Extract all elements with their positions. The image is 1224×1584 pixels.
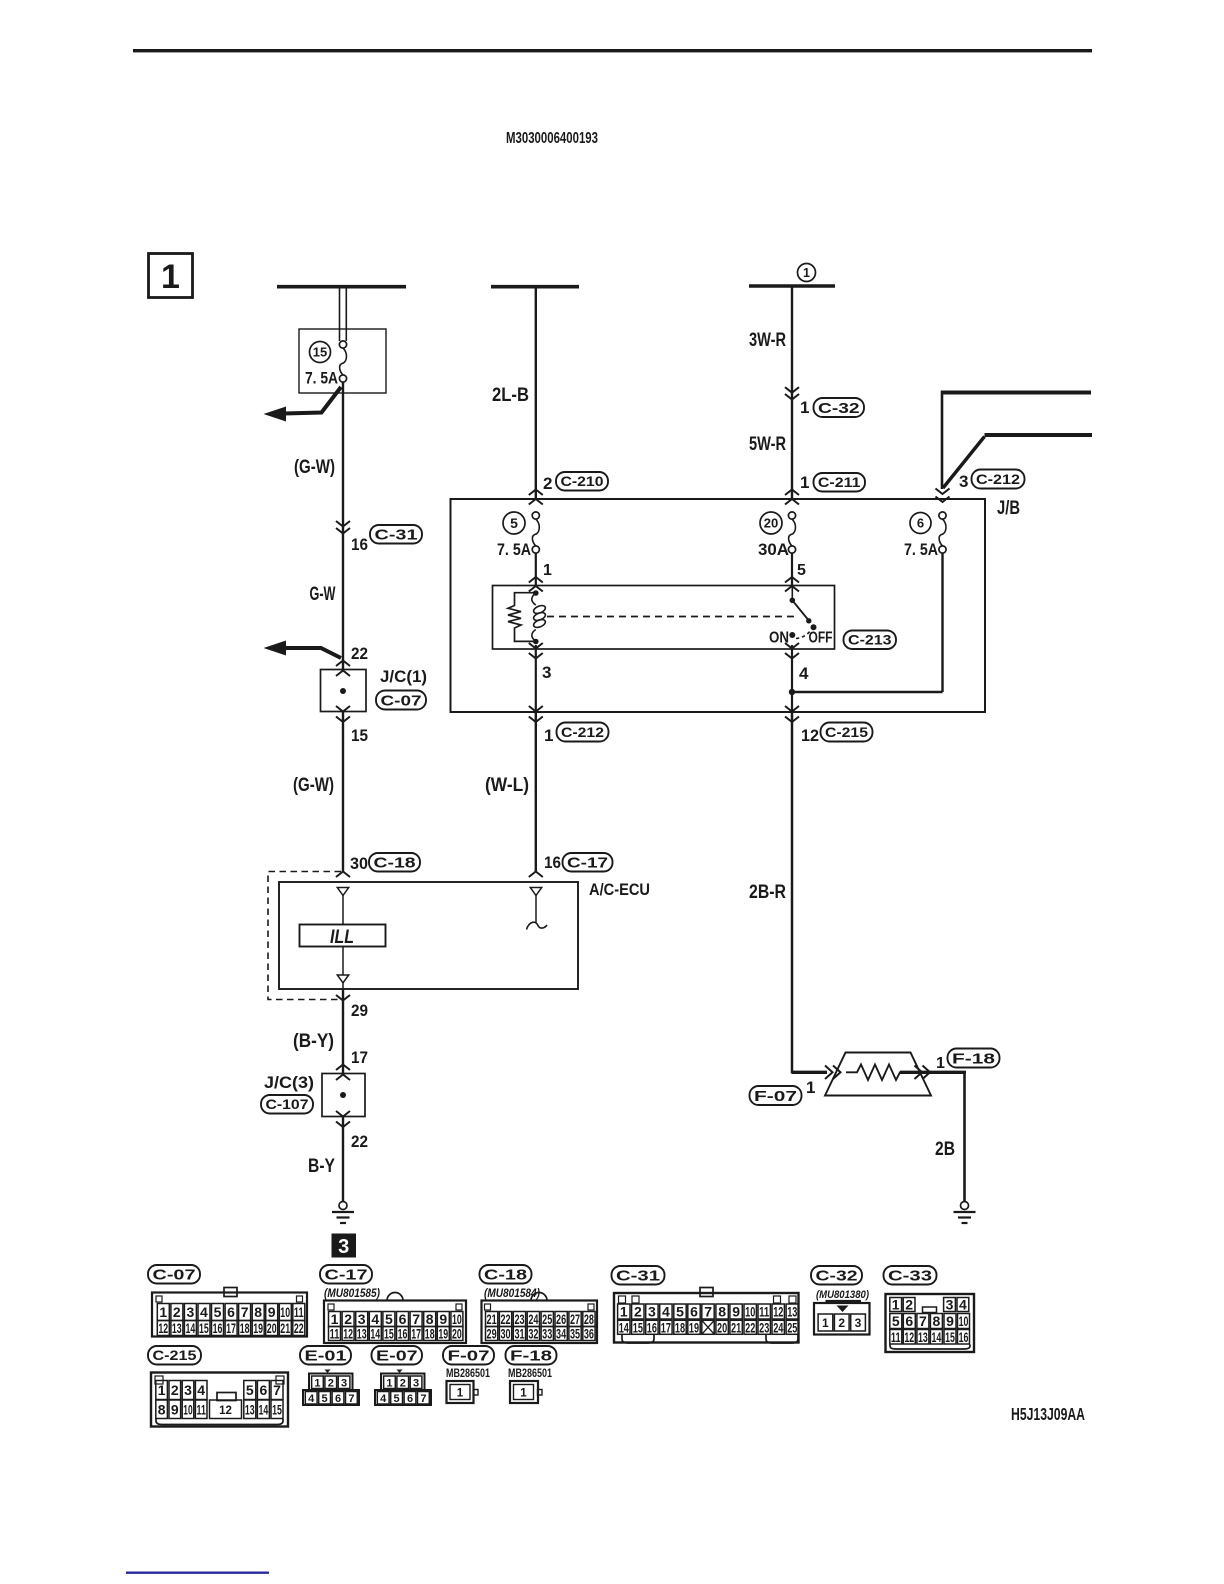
svg-text:22: 22 [745,1320,755,1336]
svg-text:1: 1 [620,1304,628,1320]
svg-text:19: 19 [438,1326,448,1342]
connector marks J/C(3) bottom [336,1111,350,1117]
svg-text:13: 13 [357,1326,367,1342]
svg-text:16: 16 [351,535,368,554]
svg-text:20: 20 [452,1326,462,1342]
svg-text:10: 10 [959,1313,969,1329]
C-32 pinout [814,1303,870,1335]
svg-text:17: 17 [661,1320,671,1336]
svg-text:(G-W): (G-W) [294,457,335,478]
fuse 15 element [339,341,346,348]
connector label C-07 [376,691,426,710]
svg-text:E-07: E-07 [376,1348,418,1365]
svg-text:C-33: C-33 [888,1268,932,1285]
svg-text:3: 3 [855,1316,862,1330]
svg-text:13: 13 [245,1401,255,1417]
svg-text:1: 1 [892,1297,900,1313]
svg-text:9: 9 [732,1304,740,1320]
svg-text:17: 17 [226,1320,236,1336]
connector label C-211 [814,473,866,492]
junction connector J/C(1) C-07 [321,670,367,712]
svg-text:7. 5A: 7. 5A [305,370,338,388]
svg-text:36: 36 [584,1326,594,1342]
legend connector F-18 [506,1346,557,1365]
wire 2L-B [535,288,537,499]
pin triangle (pin 16 inside) [530,888,541,896]
svg-text:10: 10 [745,1304,755,1320]
connector marks J/C(1) bottom [336,706,350,712]
svg-text:4: 4 [308,1393,315,1405]
svg-text:6: 6 [260,1382,268,1398]
svg-text:17: 17 [351,1048,368,1067]
svg-text:6: 6 [407,1393,413,1405]
svg-text:12: 12 [158,1320,168,1336]
svg-text:J/C(3): J/C(3) [264,1074,314,1092]
svg-text:2: 2 [905,1297,913,1313]
svg-text:20: 20 [267,1320,277,1336]
internal open end hook [527,922,548,929]
connector label C-31 [370,525,422,544]
svg-text:4: 4 [959,1297,967,1313]
connector mark A/C-ECU entry right [529,872,543,878]
svg-text:14: 14 [619,1320,629,1336]
top page rule [133,49,1092,52]
svg-text:23: 23 [759,1320,769,1336]
svg-text:3: 3 [648,1304,656,1320]
svg-text:7: 7 [241,1304,249,1320]
svg-text:3: 3 [187,1304,195,1320]
condenser fan relay box [493,586,835,650]
C-215 pinout [151,1373,288,1427]
wire pin4 down [791,645,793,712]
svg-text:1: 1 [158,1382,166,1398]
svg-text:C-31: C-31 [616,1268,660,1285]
legend connector F-07 [443,1346,494,1365]
svg-text:C-32: C-32 [818,400,860,417]
svg-text:1: 1 [161,258,180,296]
svg-text:1: 1 [543,562,552,579]
svg-text:15: 15 [945,1329,955,1345]
relay coil junction dots [533,590,539,596]
svg-text:5: 5 [676,1304,684,1320]
svg-text:2: 2 [838,1316,845,1330]
svg-text:C-210: C-210 [561,474,604,489]
svg-text:15: 15 [633,1320,643,1336]
branch arrow to other circuit (top) [284,387,341,414]
svg-text:(B-Y): (B-Y) [293,1031,334,1052]
svg-text:16: 16 [647,1320,657,1336]
connector label C-215 (wire) [821,723,873,742]
svg-text:9: 9 [946,1313,954,1329]
svg-text:3: 3 [413,1377,419,1389]
svg-text:9: 9 [268,1304,276,1320]
svg-text:2: 2 [171,1382,179,1398]
legend connector E-01 [300,1346,351,1365]
internal wire to ILL [342,896,344,926]
svg-text:1: 1 [520,1388,527,1400]
wire 2B-R [791,712,794,1074]
C-33 pinout [886,1294,975,1352]
svg-text:13: 13 [172,1320,182,1336]
relay pin 3 exit [529,643,543,649]
svg-text:13: 13 [787,1304,797,1320]
svg-text:C-215: C-215 [825,725,869,740]
svg-text:30: 30 [500,1326,510,1342]
svg-text:4: 4 [662,1304,670,1320]
resistor (condenser fan) trapezoid [825,1053,931,1096]
svg-text:3: 3 [959,472,968,491]
frame label 1 [149,254,193,298]
svg-text:15: 15 [199,1320,209,1336]
connector label C-212 (top) [972,470,1025,489]
svg-text:34: 34 [556,1326,566,1342]
svg-text:2: 2 [634,1304,642,1320]
svg-text:2: 2 [400,1377,406,1389]
svg-text:3: 3 [946,1297,954,1313]
svg-text:7: 7 [273,1382,281,1398]
power bus bar (right) [749,284,835,288]
svg-text:33: 33 [542,1326,552,1342]
svg-text:1: 1 [806,1078,815,1097]
svg-text:M3030006400193: M3030006400193 [506,130,598,147]
svg-text:3: 3 [542,663,551,682]
svg-text:1: 1 [457,1388,464,1400]
fuse 15 number [310,342,331,363]
svg-text:J/B: J/B [997,498,1020,519]
svg-text:11: 11 [891,1329,901,1345]
svg-text:2B-R: 2B-R [749,882,786,903]
svg-text:F-07: F-07 [448,1348,490,1365]
connector label C-17 (wire) [563,853,613,872]
svg-text:(W-L): (W-L) [485,775,529,796]
wire 3W-R [791,287,793,499]
svg-text:12: 12 [801,726,819,745]
feed wire (thick) top right 1 [942,391,1091,395]
svg-text:C-212: C-212 [561,725,604,740]
svg-text:3W-R: 3W-R [749,330,786,351]
wire (B-Y) [342,989,344,1074]
svg-text:3: 3 [184,1382,192,1398]
svg-text:6: 6 [335,1393,341,1405]
svg-text:14: 14 [186,1320,196,1336]
svg-text:8: 8 [254,1304,262,1320]
svg-text:10: 10 [183,1401,193,1417]
connector label C-32 (wire) [814,398,865,417]
svg-text:7: 7 [420,1393,426,1405]
svg-text:19: 19 [689,1320,699,1336]
connector marks C-32 [785,387,799,393]
svg-text:16: 16 [398,1326,408,1342]
feed wire (thick) top right 2 [985,433,1093,437]
svg-text:21: 21 [731,1320,741,1336]
relay internal resistor [508,593,536,642]
svg-text:C-32: C-32 [816,1268,858,1285]
fuse 20 [760,512,782,534]
connector mark A/C-ECU entry [336,872,350,878]
connector marks resistor right [915,1066,923,1080]
source number 1 [798,264,816,282]
svg-text:8: 8 [933,1313,941,1329]
svg-text:16: 16 [213,1320,223,1336]
svg-text:22: 22 [351,644,368,663]
svg-text:(MU801380): (MU801380) [816,1289,869,1301]
svg-text:1: 1 [386,1377,392,1389]
connector marks C-31 [336,521,350,527]
fuse 15 box [299,329,386,393]
svg-text:C-215: C-215 [153,1348,198,1363]
svg-text:18: 18 [675,1320,685,1336]
svg-text:7: 7 [919,1313,927,1329]
C-31 pinout [614,1293,799,1343]
svg-text:(G-W): (G-W) [293,775,334,796]
connector label F-18 (wire) [948,1049,1000,1068]
ground (body earth) right [961,1202,969,1210]
svg-text:11: 11 [759,1304,769,1320]
svg-text:5: 5 [892,1313,900,1329]
svg-text:13: 13 [918,1329,928,1345]
relay coil [532,593,536,605]
svg-text:29: 29 [351,1001,368,1020]
footer link rule [126,1572,269,1574]
junction block J/B [451,499,986,712]
svg-text:18: 18 [240,1320,250,1336]
svg-text:J/C(1): J/C(1) [380,668,427,686]
svg-text:5W-R: 5W-R [749,434,786,455]
wire elbow to resistor [792,1071,827,1074]
svg-text:C-211: C-211 [818,475,861,490]
svg-text:F-18: F-18 [952,1050,995,1067]
connector marks relay entry left [529,577,543,583]
svg-text:14: 14 [259,1401,269,1417]
svg-text:C-07: C-07 [153,1267,196,1284]
relay pin 4 exit [785,643,799,649]
legend connector E-07 [372,1346,423,1365]
svg-text:1: 1 [800,473,809,492]
power bus bar (middle) [491,285,579,289]
wire B-Y to ground [342,1117,344,1202]
svg-text:6: 6 [905,1313,913,1329]
svg-text:10: 10 [280,1304,290,1320]
svg-text:6: 6 [227,1304,235,1320]
svg-text:17: 17 [411,1326,421,1342]
svg-text:1: 1 [822,1316,829,1330]
svg-text:15: 15 [313,345,327,360]
svg-text:MB286501: MB286501 [508,1366,552,1380]
svg-text:8: 8 [158,1401,166,1417]
ground point marker 3 [332,1234,357,1259]
C-18 pinout [482,1301,598,1344]
legend connector C-07 [148,1265,200,1284]
C-07 pinout [152,1293,307,1337]
svg-text:5: 5 [246,1382,254,1398]
connector label C-107 [261,1095,313,1114]
svg-text:F-07: F-07 [754,1088,797,1105]
branch arrow to other circuit (at junction 22) [285,648,341,658]
svg-text:F-18: F-18 [510,1348,552,1365]
svg-text:C-07: C-07 [381,692,422,709]
legend connector C-32 [811,1266,862,1285]
svg-text:C-18: C-18 [484,1267,527,1284]
svg-text:6: 6 [917,516,924,531]
svg-text:MB286501: MB286501 [446,1366,490,1380]
svg-text:2L-B: 2L-B [492,385,529,406]
svg-text:7. 5A: 7. 5A [904,541,938,559]
svg-text:21: 21 [280,1320,290,1336]
connector marks J/B entry (C-210) [529,490,543,496]
wire G-W vertical [342,382,344,670]
svg-text:2: 2 [328,1377,334,1389]
svg-text:1: 1 [803,266,810,280]
svg-text:A/C-ECU: A/C-ECU [589,881,650,899]
svg-text:7: 7 [704,1304,712,1320]
connector marks relay entry right [785,577,799,583]
svg-text:14: 14 [370,1326,380,1342]
connector marks resistor left [825,1066,833,1080]
F-18 pinout [510,1381,538,1403]
svg-text:C-212: C-212 [976,472,1020,487]
connector label C-213 [844,631,897,650]
connector mark A/C-ECU exit [336,995,350,1001]
F-07 pinout [447,1381,474,1403]
svg-text:5: 5 [214,1304,222,1320]
wire (W-L) [535,712,537,872]
dashed option box [268,872,341,1000]
connector label C-210 [556,472,608,491]
C-17 pinout [324,1301,466,1344]
svg-text:OFF: OFF [809,630,833,647]
svg-text:4: 4 [200,1304,208,1320]
svg-text:30: 30 [350,854,368,873]
relay coil-to-switch dashed link [547,616,799,618]
svg-text:4: 4 [799,664,809,683]
wire resistor to ground [900,1071,966,1074]
svg-text:11: 11 [197,1401,207,1417]
svg-text:31: 31 [514,1326,524,1342]
svg-text:H5J13J09AA: H5J13J09AA [1011,1404,1085,1424]
E-07 pinout [397,1370,403,1374]
svg-text:12: 12 [343,1326,353,1342]
svg-text:16: 16 [959,1329,969,1345]
svg-text:1: 1 [314,1377,320,1389]
connector marks J/B exit right (C-215 pin12) [785,706,799,712]
connector label F-07 (wire) [750,1086,802,1105]
ground (body earth) left [339,1202,347,1210]
A/C-ECU box [279,882,578,989]
svg-text:11: 11 [330,1326,340,1342]
svg-text:B-Y: B-Y [308,1156,335,1177]
connector label C-212 (bottom) [557,723,609,742]
svg-text:20: 20 [717,1320,727,1336]
svg-text:1: 1 [936,1055,945,1072]
svg-text:15: 15 [272,1401,282,1417]
svg-text:16: 16 [544,853,561,872]
svg-text:2: 2 [173,1304,181,1320]
wire (G-W) lower [342,712,344,872]
svg-text:C-31: C-31 [375,527,418,544]
svg-text:12: 12 [219,1405,232,1417]
connector marks J/C(3) top [336,1065,350,1071]
svg-text:25: 25 [787,1320,797,1336]
svg-text:22: 22 [294,1320,304,1336]
svg-text:7. 5A: 7. 5A [497,541,531,559]
junction connector J/C(3) C-107 [322,1074,365,1117]
svg-text:4: 4 [380,1393,387,1405]
pin triangle (pin 29 inside) [337,975,348,983]
legend connector C-215 [148,1346,201,1365]
relay switch [790,598,796,604]
svg-text:7: 7 [348,1393,354,1405]
svg-text:29: 29 [487,1326,497,1342]
svg-text:35: 35 [570,1326,580,1342]
svg-text:30A: 30A [758,541,789,559]
svg-text:C-17: C-17 [325,1267,368,1284]
svg-text:G-W: G-W [310,584,336,605]
pin triangle (pin 30 inside) [337,888,348,896]
svg-text:32: 32 [528,1326,538,1342]
svg-text:9: 9 [171,1401,179,1417]
legend connector C-17 [320,1265,372,1284]
power bus bar (left) [277,285,406,289]
svg-text:2: 2 [543,474,552,493]
fuse 6 [910,513,931,534]
svg-text:C-18: C-18 [374,855,416,872]
legend connector C-33 [884,1266,937,1285]
svg-text:3: 3 [338,1236,349,1258]
connector marks J/B exit left (C-212 pin1) [529,706,543,712]
svg-text:1: 1 [544,726,553,745]
ILL lamp box [300,925,386,947]
E-01 pinout [325,1370,331,1374]
svg-text:12: 12 [904,1329,914,1345]
svg-text:4: 4 [197,1382,205,1398]
svg-text:19: 19 [253,1320,263,1336]
connector marks C-212 pin3 [936,489,950,495]
fuse holder double lead [339,288,341,341]
svg-text:E-01: E-01 [305,1348,347,1365]
connector label C-18 [369,853,420,872]
junction dot [789,689,795,695]
svg-text:5: 5 [322,1393,328,1405]
legend connector C-31 [612,1266,665,1285]
svg-text:1: 1 [800,398,809,417]
svg-text:24: 24 [773,1320,783,1336]
connector marks J/C(1) top [336,661,350,667]
svg-text:15: 15 [384,1326,394,1342]
svg-text:3: 3 [341,1377,347,1389]
svg-text:8: 8 [718,1304,726,1320]
legend connector C-18 [480,1265,532,1284]
svg-text:18: 18 [425,1326,435,1342]
svg-text:12: 12 [773,1304,783,1320]
svg-text:15: 15 [351,726,368,745]
internal wire from ILL [342,947,344,976]
wire fuse6 down and across [941,553,943,692]
svg-text:6: 6 [690,1304,698,1320]
svg-text:5: 5 [394,1393,400,1405]
svg-text:1: 1 [159,1304,167,1320]
svg-text:11: 11 [294,1304,304,1320]
svg-text:22: 22 [351,1132,368,1151]
wire pin3 to J/B edge [535,645,537,712]
svg-text:C-17: C-17 [567,855,608,872]
svg-text:14: 14 [932,1329,942,1345]
svg-text:20: 20 [764,516,778,531]
svg-text:C-107: C-107 [266,1097,309,1112]
svg-text:5: 5 [510,515,518,531]
svg-text:2B: 2B [935,1139,955,1160]
svg-text:C-213: C-213 [848,633,892,648]
fuse 5 [503,512,525,534]
